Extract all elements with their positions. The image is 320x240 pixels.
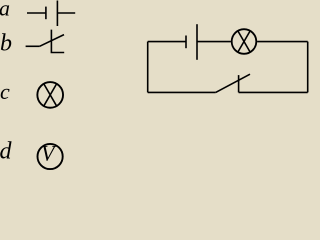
switch b blade bbox=[40, 35, 64, 47]
svg-text:d: d bbox=[0, 139, 13, 165]
wire lamp to top right corner bbox=[257, 41, 308, 43]
switch b left wire bbox=[26, 45, 40, 47]
cell a left wire bbox=[27, 12, 46, 14]
lamp c cross line 1 bbox=[44, 84, 57, 106]
bottom wire right segment bbox=[239, 91, 308, 93]
bottom wire left segment bbox=[148, 91, 216, 93]
lamp c circle bbox=[37, 82, 63, 108]
cell a short plate bbox=[45, 7, 47, 20]
switch S blade bbox=[216, 74, 250, 92]
circuit right wire bbox=[307, 42, 309, 93]
switch S contact tick bbox=[238, 75, 240, 92]
lamp L cross line 2 bbox=[238, 31, 250, 52]
lamp c cross line 2 bbox=[44, 84, 57, 106]
circuit top wire from left corner to battery bbox=[148, 41, 186, 43]
svg-text:a: a bbox=[0, 0, 10, 21]
lamp L circle bbox=[232, 29, 257, 54]
svg-text:c: c bbox=[0, 79, 10, 104]
lamp L cross line 1 bbox=[238, 31, 250, 52]
circuit left wire bbox=[147, 42, 149, 93]
svg-text:b: b bbox=[0, 31, 12, 57]
wire battery to lamp bbox=[197, 41, 231, 43]
voltmeter d circle bbox=[38, 144, 63, 169]
switch b contact bbox=[51, 30, 64, 53]
cell a right wire bbox=[57, 12, 75, 14]
cell a long plate bbox=[56, 1, 58, 27]
battery long plate bbox=[196, 24, 198, 60]
battery short plate bbox=[185, 36, 187, 49]
